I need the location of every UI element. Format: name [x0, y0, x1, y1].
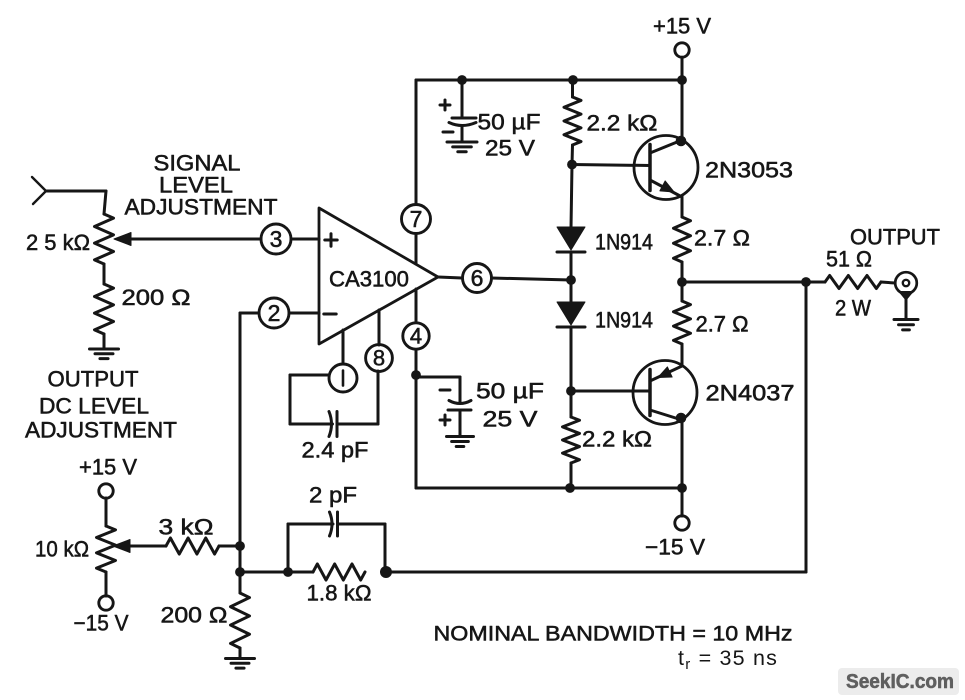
- svg-text:2: 2: [268, 300, 281, 326]
- svg-text:2N4037: 2N4037: [706, 381, 795, 406]
- svg-text:−15 V: −15 V: [74, 611, 129, 636]
- svg-text:2.2 kΩ: 2.2 kΩ: [582, 427, 652, 452]
- svg-text:25 V: 25 V: [483, 407, 538, 432]
- svg-text:ADJUSTMENT: ADJUSTMENT: [125, 195, 278, 220]
- svg-text:50 µF: 50 µF: [478, 110, 541, 135]
- svg-text:2.7 Ω: 2.7 Ω: [694, 226, 750, 251]
- svg-text:2.4 pF: 2.4 pF: [302, 438, 369, 463]
- svg-text:2N3053: 2N3053: [705, 158, 793, 183]
- svg-text:25 V: 25 V: [485, 136, 535, 161]
- svg-text:8: 8: [373, 346, 385, 371]
- svg-text:+15 V: +15 V: [79, 455, 137, 480]
- svg-text:CA3100: CA3100: [329, 267, 409, 292]
- svg-text:1N914: 1N914: [595, 230, 653, 255]
- svg-text:2 W: 2 W: [835, 296, 871, 321]
- svg-text:2.7 Ω: 2.7 Ω: [696, 312, 749, 337]
- svg-text:NOMINAL BANDWIDTH = 10 MHz: NOMINAL BANDWIDTH = 10 MHz: [434, 621, 793, 645]
- svg-text:3: 3: [270, 226, 283, 252]
- svg-text:4: 4: [410, 324, 422, 349]
- svg-text:ADJUSTMENT: ADJUSTMENT: [25, 418, 177, 443]
- svg-text:2 5 kΩ: 2 5 kΩ: [26, 230, 90, 255]
- svg-text:51 Ω: 51 Ω: [826, 247, 872, 272]
- svg-text:OUTPUT: OUTPUT: [48, 367, 139, 392]
- svg-text:+15 V: +15 V: [653, 14, 711, 39]
- svg-text:50 µF: 50 µF: [476, 379, 544, 404]
- svg-text:−15 V: −15 V: [645, 535, 705, 560]
- svg-text:2.2 kΩ: 2.2 kΩ: [587, 111, 658, 136]
- svg-text:tr = 35 ns: tr = 35 ns: [678, 646, 778, 673]
- svg-text:2 pF: 2 pF: [309, 483, 357, 508]
- svg-text:3 kΩ: 3 kΩ: [159, 515, 214, 540]
- svg-text:7: 7: [410, 206, 423, 232]
- svg-text:200 Ω: 200 Ω: [161, 603, 228, 628]
- svg-text:SeekIC.com: SeekIC.com: [846, 671, 954, 693]
- svg-text:DC LEVEL: DC LEVEL: [39, 394, 149, 419]
- svg-text:1N914: 1N914: [595, 308, 653, 333]
- svg-text:1.8 kΩ: 1.8 kΩ: [307, 581, 372, 606]
- svg-text:6: 6: [471, 265, 484, 291]
- svg-text:10 kΩ: 10 kΩ: [35, 537, 89, 562]
- svg-text:200 Ω: 200 Ω: [122, 285, 191, 310]
